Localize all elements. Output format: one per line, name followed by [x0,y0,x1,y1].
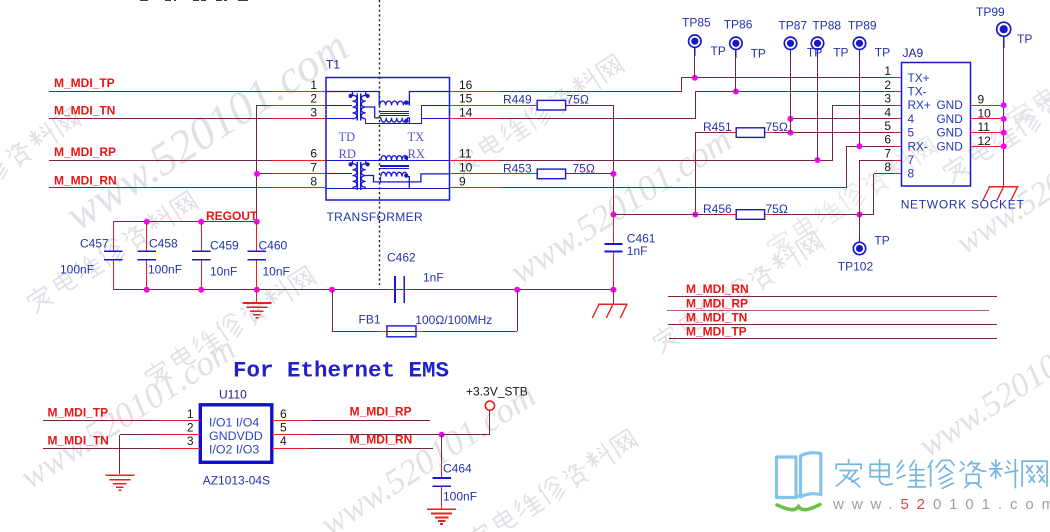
svg-text:M_MDI_TP: M_MDI_TP [686,324,747,338]
svg-text:www.520101.com: www.520101.com [832,496,1050,513]
svg-text:RX-: RX- [908,139,928,153]
svg-text:4: 4 [280,434,287,448]
junction TP87/pin4 [788,116,794,122]
svg-text:I/O1 I/O4: I/O1 I/O4 [209,416,259,430]
resistor R449 [537,100,565,110]
capacitor C457 [113,222,115,251]
T1 vertical to pins 15/14 [421,105,423,124]
junctions bottom rail [144,287,150,293]
resistor R456 row [613,214,726,216]
junction bus/R456 [610,212,616,218]
svg-text:10: 10 [459,160,473,174]
earth ground below rail [256,290,258,303]
resistor R453 row [450,173,538,175]
svg-text:10nF: 10nF [210,265,237,279]
T1 pin2 internal wire to TD tap [326,105,352,107]
JA9 right pin 11 wire [970,132,1004,134]
svg-text:3: 3 [187,434,194,448]
svg-text:TP86: TP86 [724,18,753,32]
capacitor C459 [201,222,203,251]
junctions on shield vertical [1001,102,1007,108]
svg-text:9: 9 [459,174,466,188]
wire M_MDI_TN to U110 pin3 [43,448,160,450]
TX bottom coil phase dot [404,119,408,123]
svg-text:C460: C460 [259,239,288,253]
svg-text:9: 9 [978,93,985,107]
JA9 right pin 12 wire [970,146,1004,148]
svg-text:1nF: 1nF [627,244,648,258]
svg-text:M_MDI_RP: M_MDI_RP [686,296,748,310]
wire M_MDI_TN to T1 pin 3 [49,118,272,120]
svg-text:T1: T1 [326,58,340,72]
resistor R456 [736,210,764,220]
svg-text:14: 14 [459,105,473,119]
svg-text:M_MDI_RN: M_MDI_RN [54,173,117,187]
svg-text:M_MDI_RP: M_MDI_RP [350,404,412,418]
svg-text:U110: U110 [219,388,247,402]
shield vertical to chassis ground [1003,105,1005,186]
svg-text:TD: TD [339,130,356,144]
wire TX+ step up to JA9 pin1 [681,78,683,92]
svg-text:100nF: 100nF [443,489,477,503]
ferrite bead FB1 loop [332,290,334,331]
earth ground below C464 [427,508,456,510]
TX core lines [380,111,409,113]
wire T1 pin16 TX+ run [450,91,500,93]
junction bus/R453 [610,171,616,177]
svg-text:TP88: TP88 [812,18,841,32]
svg-text:GND: GND [937,98,963,112]
resistor R451 [736,128,764,138]
wire M_MDI_RP to T1 pin 6 [49,160,272,162]
svg-text:75Ω: 75Ω [573,161,595,175]
svg-text:M_MDI_TN: M_MDI_TN [48,433,109,447]
RD choke left coil [353,164,357,188]
svg-text:TP: TP [875,45,890,59]
junction TP88 [815,157,821,163]
svg-text:10nF: 10nF [263,265,290,279]
wire RX+ step up to JA9 pin3 [832,105,834,160]
junction pin7/vertical [254,171,260,177]
RX secondary bottom coil [381,172,408,176]
svg-text:NETWORK SOCKET: NETWORK SOCKET [901,197,1025,211]
svg-text:FB1: FB1 [359,312,381,326]
svg-text:C459: C459 [210,239,239,253]
bottom rail [113,289,613,291]
svg-text:TP99: TP99 [976,5,1005,19]
svg-text:16: 16 [459,78,473,92]
svg-text:75Ω: 75Ω [567,93,589,107]
logo chinese site name [836,460,1047,489]
junction TP86 [733,89,739,95]
svg-text:TP: TP [833,45,848,59]
TX secondary bottom coil [375,117,381,119]
svg-text:R449: R449 [503,93,532,107]
svg-text:3: 3 [884,92,891,106]
svg-text:11: 11 [459,146,472,160]
wire M_MDI_RP stub [667,310,989,312]
wire T1 pin14 run [450,118,500,120]
wire JA9 pin2 row [695,91,894,93]
RD core lines [356,162,358,190]
RX primary top coil [381,156,408,160]
svg-text:AZ1013-04S: AZ1013-04S [203,473,270,487]
wire JA9 pin6 row [846,146,894,148]
resistor R451 row to JA9 pin5 [695,132,725,134]
T1 TX-to-pin16 wire [409,92,449,106]
svg-text:TP85: TP85 [682,15,711,29]
svg-text:1: 1 [310,78,317,92]
svg-text:4: 4 [884,105,891,119]
RD right coil mid tap path to pin10 [366,174,450,182]
svg-text:TRANSFORMER: TRANSFORMER [327,210,424,224]
svg-text:RX: RX [408,147,425,161]
svg-text:TP89: TP89 [848,18,877,32]
wire TX- step up to JA9 pin2 [695,92,697,119]
resistor R449 row [450,105,538,107]
svg-text:M_MDI_RP: M_MDI_RP [54,145,116,159]
T1 pin3 internal wire [326,118,353,120]
TD choke left coil [353,95,357,119]
T1 row pin1-to-TX wire [326,92,379,106]
svg-text:M_MDI_RN: M_MDI_RN [350,432,413,446]
resistor R453 [537,169,565,179]
svg-text:8: 8 [908,167,915,181]
svg-text:C462: C462 [387,250,416,264]
test point TP102 [859,214,861,236]
RX top coil phase dot [404,156,408,160]
svg-text:2: 2 [884,78,891,92]
wire R456 node to JA9 pin7 [859,160,861,214]
wire R456 node to JA9 pin8 [860,214,874,216]
capacitor C461 [613,214,615,244]
junction R451/R456 rail [692,212,698,218]
svg-text:C464: C464 [443,462,472,476]
capacitor C458 [146,222,148,251]
wire JA9 pin3 row [833,105,894,107]
wire M_MDI_RN to T1 pin 8 [49,187,272,189]
RX bottom coil left stub [380,177,382,182]
junctions top rail [144,219,150,225]
wire U110 pin2 to ground [120,434,160,436]
power port +3.3V_STB [485,401,494,410]
wire T1 pin 7 stub [257,173,272,175]
svg-text:75Ω: 75Ω [766,120,788,134]
wire M_MDI_TN stub [668,324,997,326]
TD left coil phase dot [349,94,353,98]
svg-text:100Ω/100MHz: 100Ω/100MHz [415,313,492,327]
TD choke right coil [361,95,365,119]
svg-text:M_MDI_TP: M_MDI_TP [48,405,109,419]
svg-text:M_MDI_RN: M_MDI_RN [686,282,749,296]
RD choke right coil [361,164,365,188]
junction TP87/pin5 [788,130,794,136]
RX bottom coil right end to pin9 row [407,177,409,188]
svg-text:5: 5 [280,421,287,435]
wire M_MDI_RN stub [668,296,997,298]
T1 pin15 internal wire [421,105,450,107]
svg-text:RD: RD [339,147,356,161]
svg-text:5: 5 [908,126,915,140]
svg-text:+3.3V_STB: +3.3V_STB [466,384,528,398]
wire T1 pin11 run [450,160,500,162]
earth ground below U110 pin2 [105,474,134,476]
svg-text:I/O2 I/O3: I/O2 I/O3 [209,442,259,456]
chassis ground at JA9 [989,186,1019,188]
logo book icon [777,453,821,498]
svg-text:TP102: TP102 [838,259,874,273]
chassis ground below C461 [613,290,615,304]
RD left coil phase dot [349,162,353,166]
junction TP89/pin6 [857,143,863,149]
svg-text:7: 7 [310,160,317,174]
TX bottom conductor [366,123,421,125]
T1 pin8-pin9 internal row [326,188,450,190]
JA9 right pin 10 wire [970,118,1004,120]
logo green swoosh [777,505,820,510]
svg-text:R453: R453 [503,161,532,175]
junction VDD node [439,432,445,438]
vertical wire pins2/7 down to REGOUT rail [256,105,258,222]
wire U110 pin4 M_MDI_RN [272,448,310,450]
bob-smith vertical bus [613,105,615,214]
TX primary top coil [380,101,410,105]
wire JA9 pin1 row [681,77,894,79]
svg-text:www.520101.com: www.520101.com [912,302,1050,464]
RX core lines [380,165,409,167]
capacitor C464 [441,435,443,462]
svg-text:7: 7 [884,146,891,160]
svg-text:M_MDI_TN: M_MDI_TN [54,104,115,118]
svg-text:1nF: 1nF [423,270,444,284]
vertical dashed separator line [379,0,381,285]
svg-text:5: 5 [884,119,891,133]
ferrite bead FB1 body [380,331,387,333]
svg-text:GND: GND [937,139,963,153]
svg-text:100nF: 100nF [148,263,182,277]
resistor R451 left vertical [695,133,697,214]
suppressor U110 box [200,405,271,463]
T1 pin7 internal wire to RD tap [326,173,352,175]
svg-text:75Ω: 75Ω [766,202,788,216]
svg-text:8: 8 [884,160,891,174]
wire U110 pin5 VDD [272,434,310,436]
svg-text:TX-: TX- [908,85,927,99]
TX bottom coil right end [407,118,409,124]
svg-text:1: 1 [884,64,891,78]
svg-text:TP: TP [751,47,766,61]
svg-text:GNDVDD: GNDVDD [209,429,263,443]
capacitor C462 in series [388,289,395,291]
svg-text:TX+: TX+ [908,71,930,85]
svg-text:GND: GND [937,126,963,140]
REGOUT top rail [113,221,257,223]
T1 row pin6-pin11 wire [326,160,450,162]
svg-text:3: 3 [310,105,317,119]
svg-text:C458: C458 [149,237,178,251]
svg-text:For Ethernet EMS: For Ethernet EMS [233,358,449,384]
svg-text:TP: TP [1017,32,1032,46]
svg-text:M_MDI_TN: M_MDI_TN [686,310,747,324]
svg-text:TP: TP [807,45,822,59]
connector JA9 box [902,63,971,187]
svg-text:100nF: 100nF [60,263,94,277]
svg-text:15: 15 [459,92,473,106]
svg-text:TP87: TP87 [778,18,807,32]
RX bottom coil phase dot [404,174,408,178]
svg-text:JA9: JA9 [903,46,924,60]
svg-text:6: 6 [280,407,287,421]
svg-text:1: 1 [187,407,194,421]
svg-text:TP: TP [874,234,889,248]
wire T1 pin9 run [450,187,500,189]
TD core lines [356,94,358,121]
wire M_MDI_TP to U110 pin1 [43,420,160,422]
TX top coil phase dot [404,101,408,105]
TD right coil bottom stub [365,119,367,124]
wire JA9 pin4 row [790,118,894,120]
svg-text:4: 4 [908,112,915,126]
svg-text:8: 8 [310,174,317,188]
svg-text:GND: GND [937,112,963,126]
svg-text:12: 12 [978,134,992,148]
RD right coil phase dot [366,162,370,166]
capacitor C460 [256,222,258,251]
wire RX- step up to JA9 pin6 [846,146,848,188]
svg-text:7: 7 [908,153,915,167]
svg-text:TP: TP [711,44,726,58]
TD right coil mid tap to TX bottom row [366,107,375,118]
wire M_MDI_TP stub [669,338,997,340]
top edge text remnants [140,0,148,2]
junction R456/TP102 [857,212,863,218]
TD right coil phase dot [366,94,370,98]
svg-text:RX+: RX+ [908,98,931,112]
wire M_MDI_TP to T1 pin 1 [49,91,272,93]
junction TP85 [692,75,698,81]
wire T1 pin 2 stub [257,105,272,107]
svg-text:6: 6 [310,146,317,160]
svg-text:6: 6 [884,133,891,147]
svg-text:R451: R451 [703,120,732,134]
svg-text:R456: R456 [703,202,732,216]
svg-text:C457: C457 [80,237,109,251]
transformer T1 box [326,78,450,201]
svg-text:www.520101.com: www.520101.com [56,20,357,240]
svg-text:2: 2 [187,421,194,435]
svg-text:TX: TX [408,130,425,144]
svg-text:M_MDI_TP: M_MDI_TP [54,76,115,90]
svg-text:2: 2 [310,92,317,106]
T1 pin14 internal wire [421,118,450,120]
JA9 right pin 9 wire [970,105,1004,107]
wire U110 pin6 M_MDI_RP [272,420,310,422]
wire VDD to +3.3V_STB [442,434,490,436]
